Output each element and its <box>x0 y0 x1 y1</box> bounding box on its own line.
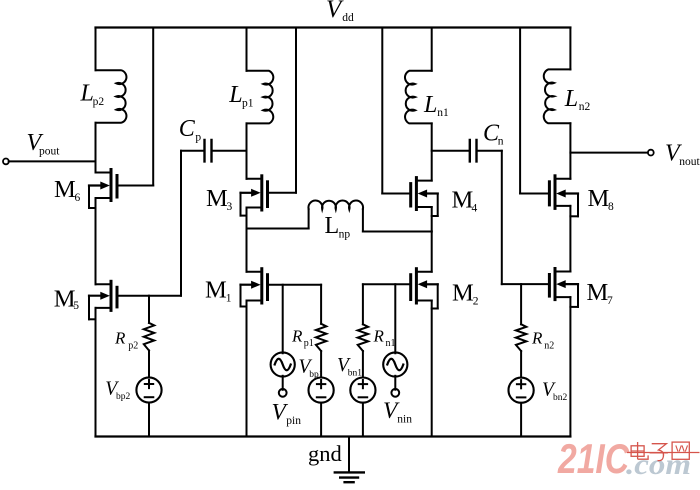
svg-text:p1: p1 <box>304 338 314 349</box>
svg-text:pin: pin <box>286 415 301 427</box>
svg-text:R: R <box>531 329 543 348</box>
svg-text:6: 6 <box>75 192 81 204</box>
svg-text:M: M <box>205 276 227 303</box>
svg-text:5: 5 <box>73 300 79 312</box>
svg-text:R: R <box>114 328 126 347</box>
svg-text:nin: nin <box>397 413 412 425</box>
svg-text:3: 3 <box>227 201 233 213</box>
svg-text:21IC: 21IC <box>557 435 629 482</box>
svg-text:8: 8 <box>608 201 614 213</box>
svg-text:L: L <box>228 82 242 108</box>
svg-text:1: 1 <box>226 292 232 304</box>
svg-text:n1: n1 <box>437 107 449 119</box>
svg-text:bn1: bn1 <box>348 369 363 379</box>
svg-text:np: np <box>339 228 351 240</box>
svg-text:bp2: bp2 <box>116 392 131 402</box>
svg-text:C: C <box>179 116 196 142</box>
svg-text:M: M <box>452 186 474 213</box>
svg-text:M: M <box>587 279 609 306</box>
svg-text:dd: dd <box>342 12 354 24</box>
svg-text:n2: n2 <box>544 341 554 352</box>
svg-text:bp1: bp1 <box>309 370 324 380</box>
svg-text:M: M <box>54 176 76 203</box>
svg-text:R: R <box>291 326 303 345</box>
svg-text:p2: p2 <box>128 340 138 351</box>
svg-text:4: 4 <box>472 202 478 214</box>
svg-text:n2: n2 <box>579 101 591 113</box>
svg-text:M: M <box>206 185 228 212</box>
svg-text:7: 7 <box>607 295 613 307</box>
svg-text:M: M <box>452 280 474 307</box>
svg-text:bn2: bn2 <box>553 393 568 403</box>
svg-text:p1: p1 <box>242 97 254 109</box>
svg-text:2: 2 <box>473 296 479 308</box>
svg-text:n: n <box>498 135 504 147</box>
svg-text:n1: n1 <box>386 338 396 349</box>
svg-text:p: p <box>195 131 201 143</box>
svg-text:pout: pout <box>39 146 60 158</box>
svg-text:L: L <box>564 86 578 112</box>
svg-text:L: L <box>423 92 437 118</box>
svg-text:R: R <box>373 326 385 345</box>
svg-text:M: M <box>588 185 610 212</box>
svg-text:gnd: gnd <box>308 441 342 466</box>
svg-text:L: L <box>325 213 340 239</box>
svg-text:nout: nout <box>679 156 700 168</box>
svg-text:p2: p2 <box>93 96 105 108</box>
